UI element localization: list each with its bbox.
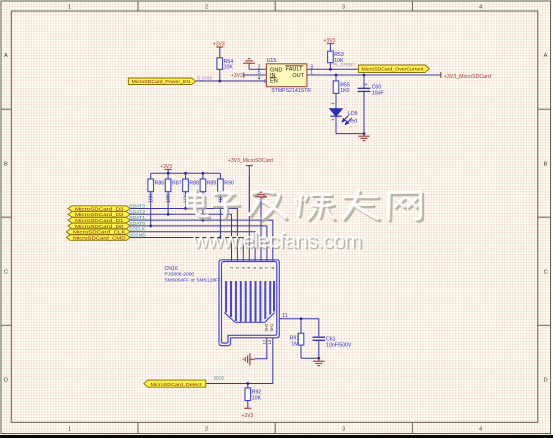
capacitor C61 xyxy=(313,336,352,358)
resistor R91 xyxy=(290,319,304,359)
svg-text:1: 1 xyxy=(68,5,71,11)
svg-text:SDCD: SDCD xyxy=(214,376,225,381)
wire R54 to junction xyxy=(219,69,221,81)
resistor R89 xyxy=(200,173,216,220)
pull-up bus wire xyxy=(151,172,221,174)
svg-text:1M: 1M xyxy=(291,342,298,348)
card contact fingers xyxy=(226,281,274,322)
junction ground xyxy=(317,357,320,360)
wire SDAT0 to pin 7 xyxy=(130,226,267,261)
junction R88 net D3 xyxy=(184,207,187,210)
junction bus R87 xyxy=(167,172,170,175)
junction R89 net D1 xyxy=(202,219,205,222)
watermark chinese 电子发烧友网 xyxy=(187,189,423,221)
svg-text:C: C xyxy=(4,269,8,275)
svg-text:2: 2 xyxy=(205,5,208,11)
svg-text:SH1: SH1 xyxy=(269,323,274,332)
junction R87 net D2 xyxy=(167,213,170,216)
svg-text:R88: R88 xyxy=(189,180,199,186)
ground below C60 xyxy=(358,134,370,141)
svg-text:2: 2 xyxy=(205,426,208,432)
junction pin11/R91 xyxy=(300,317,303,320)
wire SDAT2 to pin 1 xyxy=(130,214,231,261)
svg-text:CN16: CN16 xyxy=(165,266,178,272)
power port +3V3_MicroSDCard at OUT xyxy=(441,72,491,80)
svg-text:MicroSDCard_Detect: MicroSDCard_Detect xyxy=(151,382,203,388)
svg-text:PL_GPIO87: PL_GPIO87 xyxy=(334,62,355,67)
port MicroSDCard_D1 xyxy=(68,217,130,224)
svg-text:R89: R89 xyxy=(207,180,217,186)
svg-text:3: 3 xyxy=(342,426,345,432)
port MicroSDCard_Power_EN xyxy=(128,78,196,85)
power flag +3V3 above pull-up bank xyxy=(160,164,172,173)
power port +3V3 at U15 IN xyxy=(231,72,266,79)
svg-text:SDAT3: SDAT3 xyxy=(129,204,145,209)
svg-text:+3V3: +3V3 xyxy=(242,413,254,419)
power flag +3V3 below R92 xyxy=(242,408,254,419)
ground to card VSS pin 6 (over watermark) xyxy=(249,176,267,228)
port MicroSDCard_CLK xyxy=(67,229,131,236)
resistor R55 xyxy=(333,75,350,109)
wire EN net xyxy=(196,80,264,82)
svg-text:SDAT2: SDAT2 xyxy=(129,209,145,214)
resistor R92 xyxy=(245,384,262,409)
port MicroSDCard_OverCurrent xyxy=(359,65,430,73)
svg-text:11: 11 xyxy=(282,313,287,319)
shield pin SH2 wire to chassis ground xyxy=(255,338,267,359)
port MicroSDCard_D0 xyxy=(68,223,130,230)
power flag +3V3_MicroSDCard mid xyxy=(228,158,273,261)
svg-text:4: 4 xyxy=(479,5,482,11)
svg-text:10K: 10K xyxy=(224,65,234,71)
wire SDAT1 to pin 8 xyxy=(130,220,273,261)
junction OUT/C60 xyxy=(363,74,366,77)
wire LED to ground xyxy=(336,133,364,135)
svg-text:SDCLK: SDCLK xyxy=(129,227,146,232)
power flag +3V3 above R54 xyxy=(213,42,225,58)
svg-text:10K: 10K xyxy=(149,193,155,203)
svg-text:B: B xyxy=(4,161,8,167)
svg-text:3: 3 xyxy=(342,5,345,11)
wire GND pin xyxy=(249,68,266,70)
connector CN16 outline xyxy=(219,260,279,346)
port MicroSDCard_Detect xyxy=(144,380,206,388)
svg-text:B: B xyxy=(544,161,548,167)
svg-text:+3V3: +3V3 xyxy=(231,73,243,79)
svg-text:10nF: 10nF xyxy=(372,91,384,97)
svg-text:SDCMD: SDCMD xyxy=(129,233,146,238)
ground below C61 xyxy=(313,358,325,365)
shield pin numbers below xyxy=(261,339,272,344)
junction detect/R92 xyxy=(246,382,249,385)
svg-text:FAULT: FAULT xyxy=(286,67,304,73)
svg-text:+: + xyxy=(365,82,368,88)
svg-text:MicroSDCard_CMD: MicroSDCard_CMD xyxy=(73,235,126,241)
chassis ground (shield) xyxy=(243,353,254,365)
svg-text:SDAT0: SDAT0 xyxy=(129,221,145,226)
contact taper outline xyxy=(224,313,274,323)
svg-text:R86: R86 xyxy=(155,180,165,186)
svg-text:R87: R87 xyxy=(172,180,182,186)
svg-text:SH2: SH2 xyxy=(263,323,268,332)
resistor R88 xyxy=(183,173,199,208)
svg-text:D: D xyxy=(4,378,8,384)
shield pin labels SH2 SH1 xyxy=(263,323,274,332)
junction FAULT/R53 xyxy=(329,68,332,71)
wire OUT net xyxy=(307,74,441,76)
junction R86 net D0 xyxy=(149,225,152,228)
wire FAULT net xyxy=(307,68,359,70)
watermark url www.elecfans.com xyxy=(192,229,363,255)
ground to card VSS pin 6 xyxy=(255,192,267,261)
resistor R54 xyxy=(217,58,233,71)
junction C60/ground xyxy=(363,132,366,135)
svg-text:10nF/500V: 10nF/500V xyxy=(326,342,352,348)
svg-text:1K0: 1K0 xyxy=(340,88,349,94)
resistor R86 xyxy=(148,173,164,226)
svg-text:SMS064FF or SMS128FF: SMS064FF or SMS128FF xyxy=(165,277,222,283)
junction R90 net CMD xyxy=(219,236,222,239)
pin 11 wire xyxy=(279,313,319,337)
svg-text:PJS008-2000: PJS008-2000 xyxy=(165,272,195,278)
wire R91 to C61 foot xyxy=(301,357,319,359)
svg-text:10K: 10K xyxy=(166,193,172,203)
power flag +3V3 above R53 xyxy=(323,38,335,51)
svg-text:+3V3_MicroSDCard: +3V3_MicroSDCard xyxy=(228,158,273,164)
svg-text:www.elecfans.com: www.elecfans.com xyxy=(192,229,361,253)
svg-text:C: C xyxy=(544,269,548,275)
port MicroSDCard_D3 xyxy=(68,206,130,213)
svg-text:STMPS2141STR: STMPS2141STR xyxy=(271,88,311,94)
svg-text:SDAT1: SDAT1 xyxy=(129,215,145,220)
svg-text:+3V3_MicroSDCard: +3V3_MicroSDCard xyxy=(444,74,491,80)
pin numbers 2 5 4 xyxy=(258,64,261,82)
svg-text:4: 4 xyxy=(479,426,482,432)
svg-text:R90: R90 xyxy=(224,180,234,186)
junction OUT/R55 xyxy=(335,74,338,77)
capacitor C60 xyxy=(358,75,384,134)
port MicroSDCard_CMD xyxy=(67,235,131,242)
svg-text:OUT: OUT xyxy=(292,73,304,79)
shield pin SH1 wire to detect xyxy=(206,338,273,384)
wire SDAT3 to pin 2 xyxy=(130,209,237,262)
svg-text:PL_GPIO61: PL_GPIO61 xyxy=(197,75,213,80)
svg-text:U15: U15 xyxy=(267,58,277,64)
svg-text:LD5: LD5 xyxy=(348,111,358,117)
connector CN16 labels xyxy=(165,266,222,283)
IC U15 STMPS2141STR xyxy=(264,58,311,94)
wire SDCLK to pin 5 xyxy=(130,232,255,261)
svg-text:4: 4 xyxy=(258,76,261,82)
svg-text:10K: 10K xyxy=(252,395,262,401)
svg-text:12: 12 xyxy=(261,339,266,344)
svg-text:A: A xyxy=(4,53,8,59)
svg-text:1: 1 xyxy=(68,426,71,432)
port MicroSDCard_D2 xyxy=(68,212,130,219)
svg-text:13: 13 xyxy=(267,339,272,344)
ground at U15 GND pin xyxy=(243,59,255,70)
svg-text:EN: EN xyxy=(270,79,278,85)
svg-text:A: A xyxy=(544,53,548,59)
svg-text:red: red xyxy=(350,119,358,125)
resistor R90 xyxy=(218,173,234,237)
pin numbers inside connector top xyxy=(229,266,275,269)
junction bus R88 xyxy=(184,172,187,175)
svg-text:MicroSDCard_OverCurrent: MicroSDCard_OverCurrent xyxy=(362,67,425,73)
resistor R87 xyxy=(165,173,181,214)
junction bus R89 xyxy=(202,172,205,175)
svg-text:D: D xyxy=(544,378,548,384)
wire SDCMD to pin 3 xyxy=(130,238,243,262)
resistor R53 xyxy=(328,51,344,69)
LED LD5 red xyxy=(330,103,358,133)
junction EN/R54 xyxy=(218,80,221,83)
svg-text:MicroSDCard_Power_EN: MicroSDCard_Power_EN xyxy=(132,79,191,85)
pin numbers 3 1 xyxy=(310,64,313,76)
